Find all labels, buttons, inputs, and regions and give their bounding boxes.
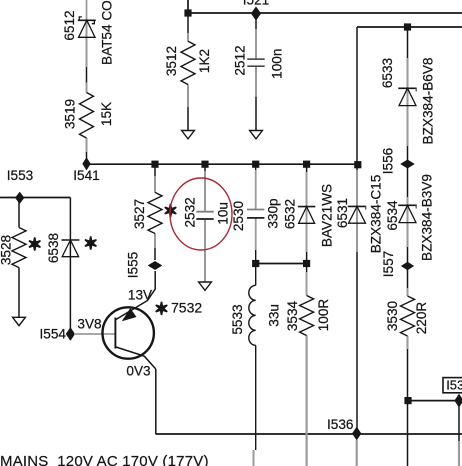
label 13V (128, 287, 152, 302)
red highlight ellipse (170, 178, 232, 250)
node I536 (352, 427, 361, 440)
wire 6531 column x=357 (356, 27, 358, 434)
label 3512 (164, 46, 179, 76)
wire 2530-6532 bottom link (256, 263, 307, 265)
inductor 5533 (249, 285, 256, 345)
node I557 (401, 262, 414, 270)
wire 6538 column (69, 198, 71, 335)
label 6512 (62, 10, 77, 40)
svg-text:6534: 6534 (385, 200, 400, 231)
label I541 (73, 168, 99, 183)
label 15K (99, 102, 114, 126)
wire 6533-6534-3530 column x=407.5 (407, 27, 409, 466)
label I554 (40, 327, 67, 342)
label BZX384-B6V8 (421, 58, 436, 145)
junction at 306.6,263.5 (303, 260, 310, 267)
svg-text:100R: 100R (316, 299, 331, 332)
wire 6532-3534 column (306, 164, 308, 295)
label 3527 (132, 199, 147, 229)
node I554 (66, 328, 75, 341)
svg-text:3528: 3528 (0, 235, 13, 265)
svg-text:I536: I536 (327, 417, 353, 432)
svg-text:6512: 6512 (62, 10, 77, 40)
wire 3512 column (187, 13, 189, 131)
node I555 (148, 261, 162, 269)
wire I553 horizontal (0, 197, 70, 199)
svg-text:I556: I556 (381, 148, 396, 174)
node I541 (83, 158, 91, 171)
label 2530 (231, 200, 246, 231)
label 6531 (335, 198, 350, 228)
node I530 diamond (455, 394, 462, 407)
svg-text:33u: 33u (266, 304, 281, 327)
wire top rail (188, 12, 462, 14)
svg-text:220R: 220R (414, 302, 429, 335)
wire 2530-5533 column (255, 164, 257, 450)
label 220R (414, 302, 429, 335)
label 6533 (380, 58, 395, 88)
svg-text:2530: 2530 (231, 200, 246, 231)
svg-text:BAV21WS: BAV21WS (319, 184, 334, 247)
label 33u (266, 304, 281, 327)
diode 6532 (298, 207, 315, 224)
svg-text:3534: 3534 (285, 300, 300, 331)
svg-text:330p: 330p (265, 198, 280, 228)
ground below 2532 (199, 282, 212, 290)
label BAV21WS (319, 184, 334, 247)
svg-text:I553: I553 (7, 168, 33, 183)
svg-text:2512: 2512 (232, 45, 247, 75)
label 1K2 (197, 49, 212, 73)
offpage box I530 (443, 377, 462, 393)
resistor 3527 (148, 192, 162, 233)
capacitor 2530 (247, 210, 264, 218)
svg-text:13V: 13V (128, 287, 152, 302)
label I536 (327, 417, 353, 432)
diode 6531 (348, 206, 366, 223)
capacitor 2532 (196, 212, 213, 219)
svg-text:3V8: 3V8 (77, 317, 101, 332)
label 3528 (0, 235, 13, 265)
svg-text:3519: 3519 (63, 99, 78, 129)
label 6538 (46, 233, 61, 263)
resistor 3512 (181, 41, 195, 84)
svg-text:7532: 7532 (171, 300, 202, 316)
label MAINS (0, 453, 209, 466)
label 3534 (285, 300, 300, 331)
junction at 256,164 (252, 161, 259, 168)
label 5533 (230, 304, 245, 334)
wire I530 drop (458, 401, 460, 441)
svg-text:6531: 6531 (335, 198, 350, 228)
svg-text:3527: 3527 (132, 199, 147, 229)
label 3519 (63, 99, 78, 129)
svg-text:10u: 10u (215, 202, 230, 225)
label BZX384-B3V9 (419, 174, 434, 261)
svg-text:2532: 2532 (182, 197, 197, 227)
label 3530 (385, 300, 400, 331)
wire second rail (357, 26, 462, 28)
label 7532 (171, 300, 202, 316)
diode 6533 (398, 88, 416, 105)
node I553 (15, 192, 24, 204)
junction at 155,164 (151, 161, 158, 168)
resistor 3534 (300, 296, 314, 336)
transistor 7532 (103, 271, 156, 369)
node I556 (401, 160, 415, 168)
ground below 3528 (13, 317, 26, 325)
svg-text:I555: I555 (125, 252, 140, 278)
asterisk for 6538 (85, 236, 96, 249)
svg-text:100n: 100n (270, 49, 285, 79)
svg-text:I541: I541 (73, 168, 99, 183)
node I52x diamond (251, 7, 261, 20)
label 2532 (182, 197, 197, 227)
wire base lead (74, 333, 115, 335)
wire left column x=86.5 (86, 20, 88, 164)
svg-text:5533: 5533 (230, 304, 245, 334)
wire I541 rail (87, 163, 358, 165)
svg-text:I521: I521 (243, 0, 269, 8)
label I521 (clipped at top) (243, 0, 269, 8)
diode 6512 (78, 17, 96, 37)
junction at 357,164 (354, 161, 361, 168)
label 100R (316, 299, 331, 332)
diode 6538 (61, 240, 79, 257)
wire 3527 column (154, 164, 156, 260)
label 10u (215, 202, 230, 225)
svg-text:6538: 6538 (46, 233, 61, 263)
wire 2512 column (255, 14, 257, 131)
label I555 (125, 252, 140, 278)
diode 6534 (398, 205, 416, 222)
label 6534 (385, 200, 400, 231)
junction at 255.7,263.5 (252, 260, 259, 267)
svg-text:6533: 6533 (380, 58, 395, 88)
svg-text:6532: 6532 (282, 199, 297, 229)
wire I530 link (408, 400, 459, 402)
label 3V8 (77, 317, 101, 332)
svg-text:I554: I554 (40, 327, 67, 342)
label 2512 (232, 45, 247, 75)
label 6532 (282, 199, 297, 229)
svg-text:BZX384-B6V8: BZX384-B6V8 (421, 58, 436, 145)
wire top feed vertical (187, 0, 189, 13)
junction at 205,164 (201, 161, 208, 168)
label 100n (270, 49, 285, 79)
label I557 (381, 251, 396, 277)
svg-text:BZX384-C15: BZX384-C15 (368, 175, 383, 254)
junction at 408,400.6 (404, 397, 411, 404)
svg-text:3530: 3530 (385, 300, 400, 331)
svg-text:MAINS 120V AC 170V (177V): MAINS 120V AC 170V (177V) (0, 453, 209, 466)
resistor 3530 (401, 296, 415, 336)
label 330p (265, 198, 280, 228)
svg-text:15K: 15K (99, 102, 114, 126)
svg-text:I530: I530 (446, 377, 462, 392)
svg-text:I557: I557 (381, 251, 396, 277)
label I556 (381, 148, 396, 174)
capacitor 2512 (247, 59, 264, 66)
junction at 407.5,27 (404, 23, 411, 30)
svg-text:BZX384-B3V9: BZX384-B3V9 (419, 174, 434, 261)
junction at 307,164 (303, 161, 310, 168)
svg-text:1K2: 1K2 (197, 49, 212, 73)
wire collector drop x=155.5 (155, 369, 157, 434)
asterisk for 7532 (156, 302, 167, 315)
junction at 188,13 (184, 9, 191, 16)
label BZX384-C15 (368, 175, 383, 254)
wire 2532 column (204, 164, 206, 281)
svg-text:0V3: 0V3 (126, 364, 150, 379)
label BAT54 COM (100, 0, 115, 65)
svg-text:3512: 3512 (164, 46, 179, 76)
resistor 3519 (80, 93, 94, 138)
resistor 3528 (12, 228, 26, 268)
wire 3528 column (18, 198, 20, 318)
ground below 2512 (250, 131, 263, 139)
label I553 (7, 168, 33, 183)
asterisk for 2532 (165, 204, 176, 217)
asterisk for 3528 (29, 237, 40, 250)
wire bottom rail y=434 (156, 433, 462, 435)
ground below 3512 (182, 131, 195, 139)
svg-text:BAT54 COM: BAT54 COM (100, 0, 115, 65)
label 0V3 (126, 364, 150, 379)
